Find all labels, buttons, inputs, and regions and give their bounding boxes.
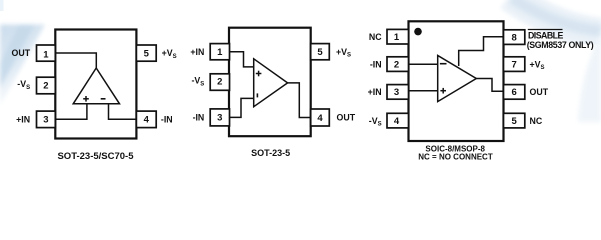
wire pin1 to op-amp output [55,53,96,68]
pin 1 box [210,44,229,60]
op-amp A1 triangle [73,68,119,104]
svg-text:4: 4 [317,113,323,124]
wire pin3 to + input [409,90,438,92]
pin 6 box [504,85,525,100]
svg-text:4: 4 [394,116,400,127]
svg-text:4: 4 [144,115,150,126]
wire pin3 to + input [55,104,87,120]
pin 3 box [37,111,56,128]
svg-text:DISABLE: DISABLE [528,31,563,41]
minus sign inside A3 [440,63,447,65]
wire pin4 to - input [109,104,137,119]
svg-text:5: 5 [317,47,323,58]
pin numbers pkg1 [43,48,149,125]
svg-text:SOT-23-5: SOT-23-5 [251,148,290,158]
svg-text:(SGM8537 ONLY): (SGM8537 ONLY) [527,40,594,50]
svg-text:OUT: OUT [12,48,31,58]
pin 4 box [136,111,156,128]
pin 7 box [504,57,525,72]
op-amp A3 triangle [438,56,477,102]
svg-text:1: 1 [217,47,223,58]
pin 5 box [504,113,525,128]
pin 4 box [387,113,409,128]
IC body SOT-23-5 [229,28,311,137]
wire disable pin8 to top edge [459,37,504,66]
pin numbers pkg3 [394,32,518,127]
svg-text:5: 5 [144,48,150,59]
pin 3 box [387,85,409,100]
svg-text:+IN: +IN [190,47,204,57]
pin1 marker dot [414,28,422,36]
wire pin2 to - input [409,63,438,65]
svg-text:8: 8 [512,32,517,43]
svg-text:NC: NC [369,32,382,42]
pin 1 box [387,29,409,44]
pin 3 box [210,109,229,126]
svg-text:OUT: OUT [530,87,549,97]
pin 8 box [504,30,525,45]
pin 4 box [311,109,330,126]
decorative top-right swoosh [509,0,601,122]
wire pin3 to - input [230,98,254,117]
pin 2 box [387,57,409,72]
svg-text:-IN: -IN [193,113,205,123]
svg-text:OUT: OUT [337,113,356,123]
op-amp A2 triangle [254,59,288,107]
plus sign inside A3 [440,88,446,94]
wire output to pin4 [288,83,311,118]
svg-text:3: 3 [394,87,399,98]
svg-text:5: 5 [512,116,518,127]
svg-text:6: 6 [512,87,517,98]
svg-text:3: 3 [43,115,48,126]
plus sign inside A2 [256,71,262,77]
wire output to pin6 [476,79,503,92]
pin 2 box [37,77,56,94]
minus sign inside A2 (vertical tick) [256,93,258,97]
minus sign inside A1 [101,98,106,100]
svg-text:3: 3 [217,113,222,124]
svg-text:1: 1 [394,32,400,43]
pin numbers pkg2 [217,47,323,124]
svg-text:2: 2 [43,81,48,92]
decorative left diagonal swoosh [0,25,45,107]
svg-text:7: 7 [512,59,517,70]
svg-text:NC: NC [530,116,543,126]
svg-text:-IN: -IN [161,115,173,125]
pin 5 box [311,44,330,60]
svg-text:2: 2 [394,59,399,70]
svg-text:-IN: -IN [370,59,382,69]
svg-text:+IN: +IN [368,87,382,97]
svg-text:SOT-23-5/SC70-5: SOT-23-5/SC70-5 [57,151,134,162]
svg-text:+IN: +IN [16,115,30,125]
IC body SOT-23-5/SC70-5 [55,30,136,139]
pin 1 box [37,45,56,61]
plus sign inside A1 [83,96,89,102]
svg-text:2: 2 [217,76,222,87]
pin 5 box [136,45,156,61]
svg-text:1: 1 [43,49,49,60]
wire pin1 to + input [230,52,254,67]
svg-text:NC = NO CONNECT: NC = NO CONNECT [418,152,493,161]
pin 2 box [210,74,229,91]
IC body SOIC-8/MSOP-8 [409,21,504,141]
